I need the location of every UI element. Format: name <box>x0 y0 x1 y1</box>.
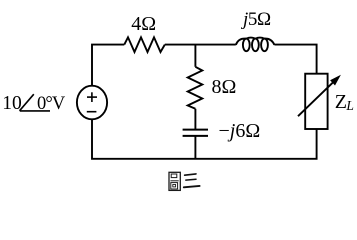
minus sign <box>87 111 97 113</box>
capacitor -j6ohm <box>183 130 208 136</box>
wire 8ohm to capacitor <box>194 109 196 130</box>
svg-text:4Ω: 4Ω <box>131 13 156 35</box>
wire top middle (resistor to inductor through node A) <box>165 44 236 46</box>
wire capacitor to bottom <box>194 136 196 159</box>
svg-text:8Ω: 8Ω <box>212 76 237 98</box>
svg-text:0°V: 0°V <box>37 94 66 114</box>
caption figure three char SAN <box>184 174 200 187</box>
label ZL <box>335 91 354 113</box>
wire top-right from inductor to load <box>274 45 316 74</box>
label j5ohm <box>240 9 271 30</box>
inductor j5ohm <box>236 38 275 52</box>
label 8ohm <box>212 76 237 98</box>
wire top-left from source to resistor <box>92 45 124 86</box>
label source 10 angle 0 V <box>2 93 66 114</box>
voltage source circle <box>77 86 107 120</box>
svg-text:Z: Z <box>335 91 347 113</box>
load ZL variable arrow <box>298 76 340 116</box>
resistor R 4ohm <box>124 37 165 52</box>
wire node A down to 8ohm resistor <box>194 45 196 67</box>
svg-text:10: 10 <box>2 93 22 114</box>
svg-text:−j6Ω: −j6Ω <box>219 120 261 142</box>
resistor 8ohm vertical <box>188 67 203 109</box>
svg-text:j5Ω: j5Ω <box>240 9 271 30</box>
label -j6ohm <box>219 120 261 142</box>
label 4ohm <box>131 13 156 35</box>
load ZL box <box>305 74 327 129</box>
wire load to bottom <box>92 119 317 159</box>
svg-text:L: L <box>345 98 354 113</box>
caption figure three char TU <box>169 172 180 190</box>
plus sign <box>87 92 97 102</box>
